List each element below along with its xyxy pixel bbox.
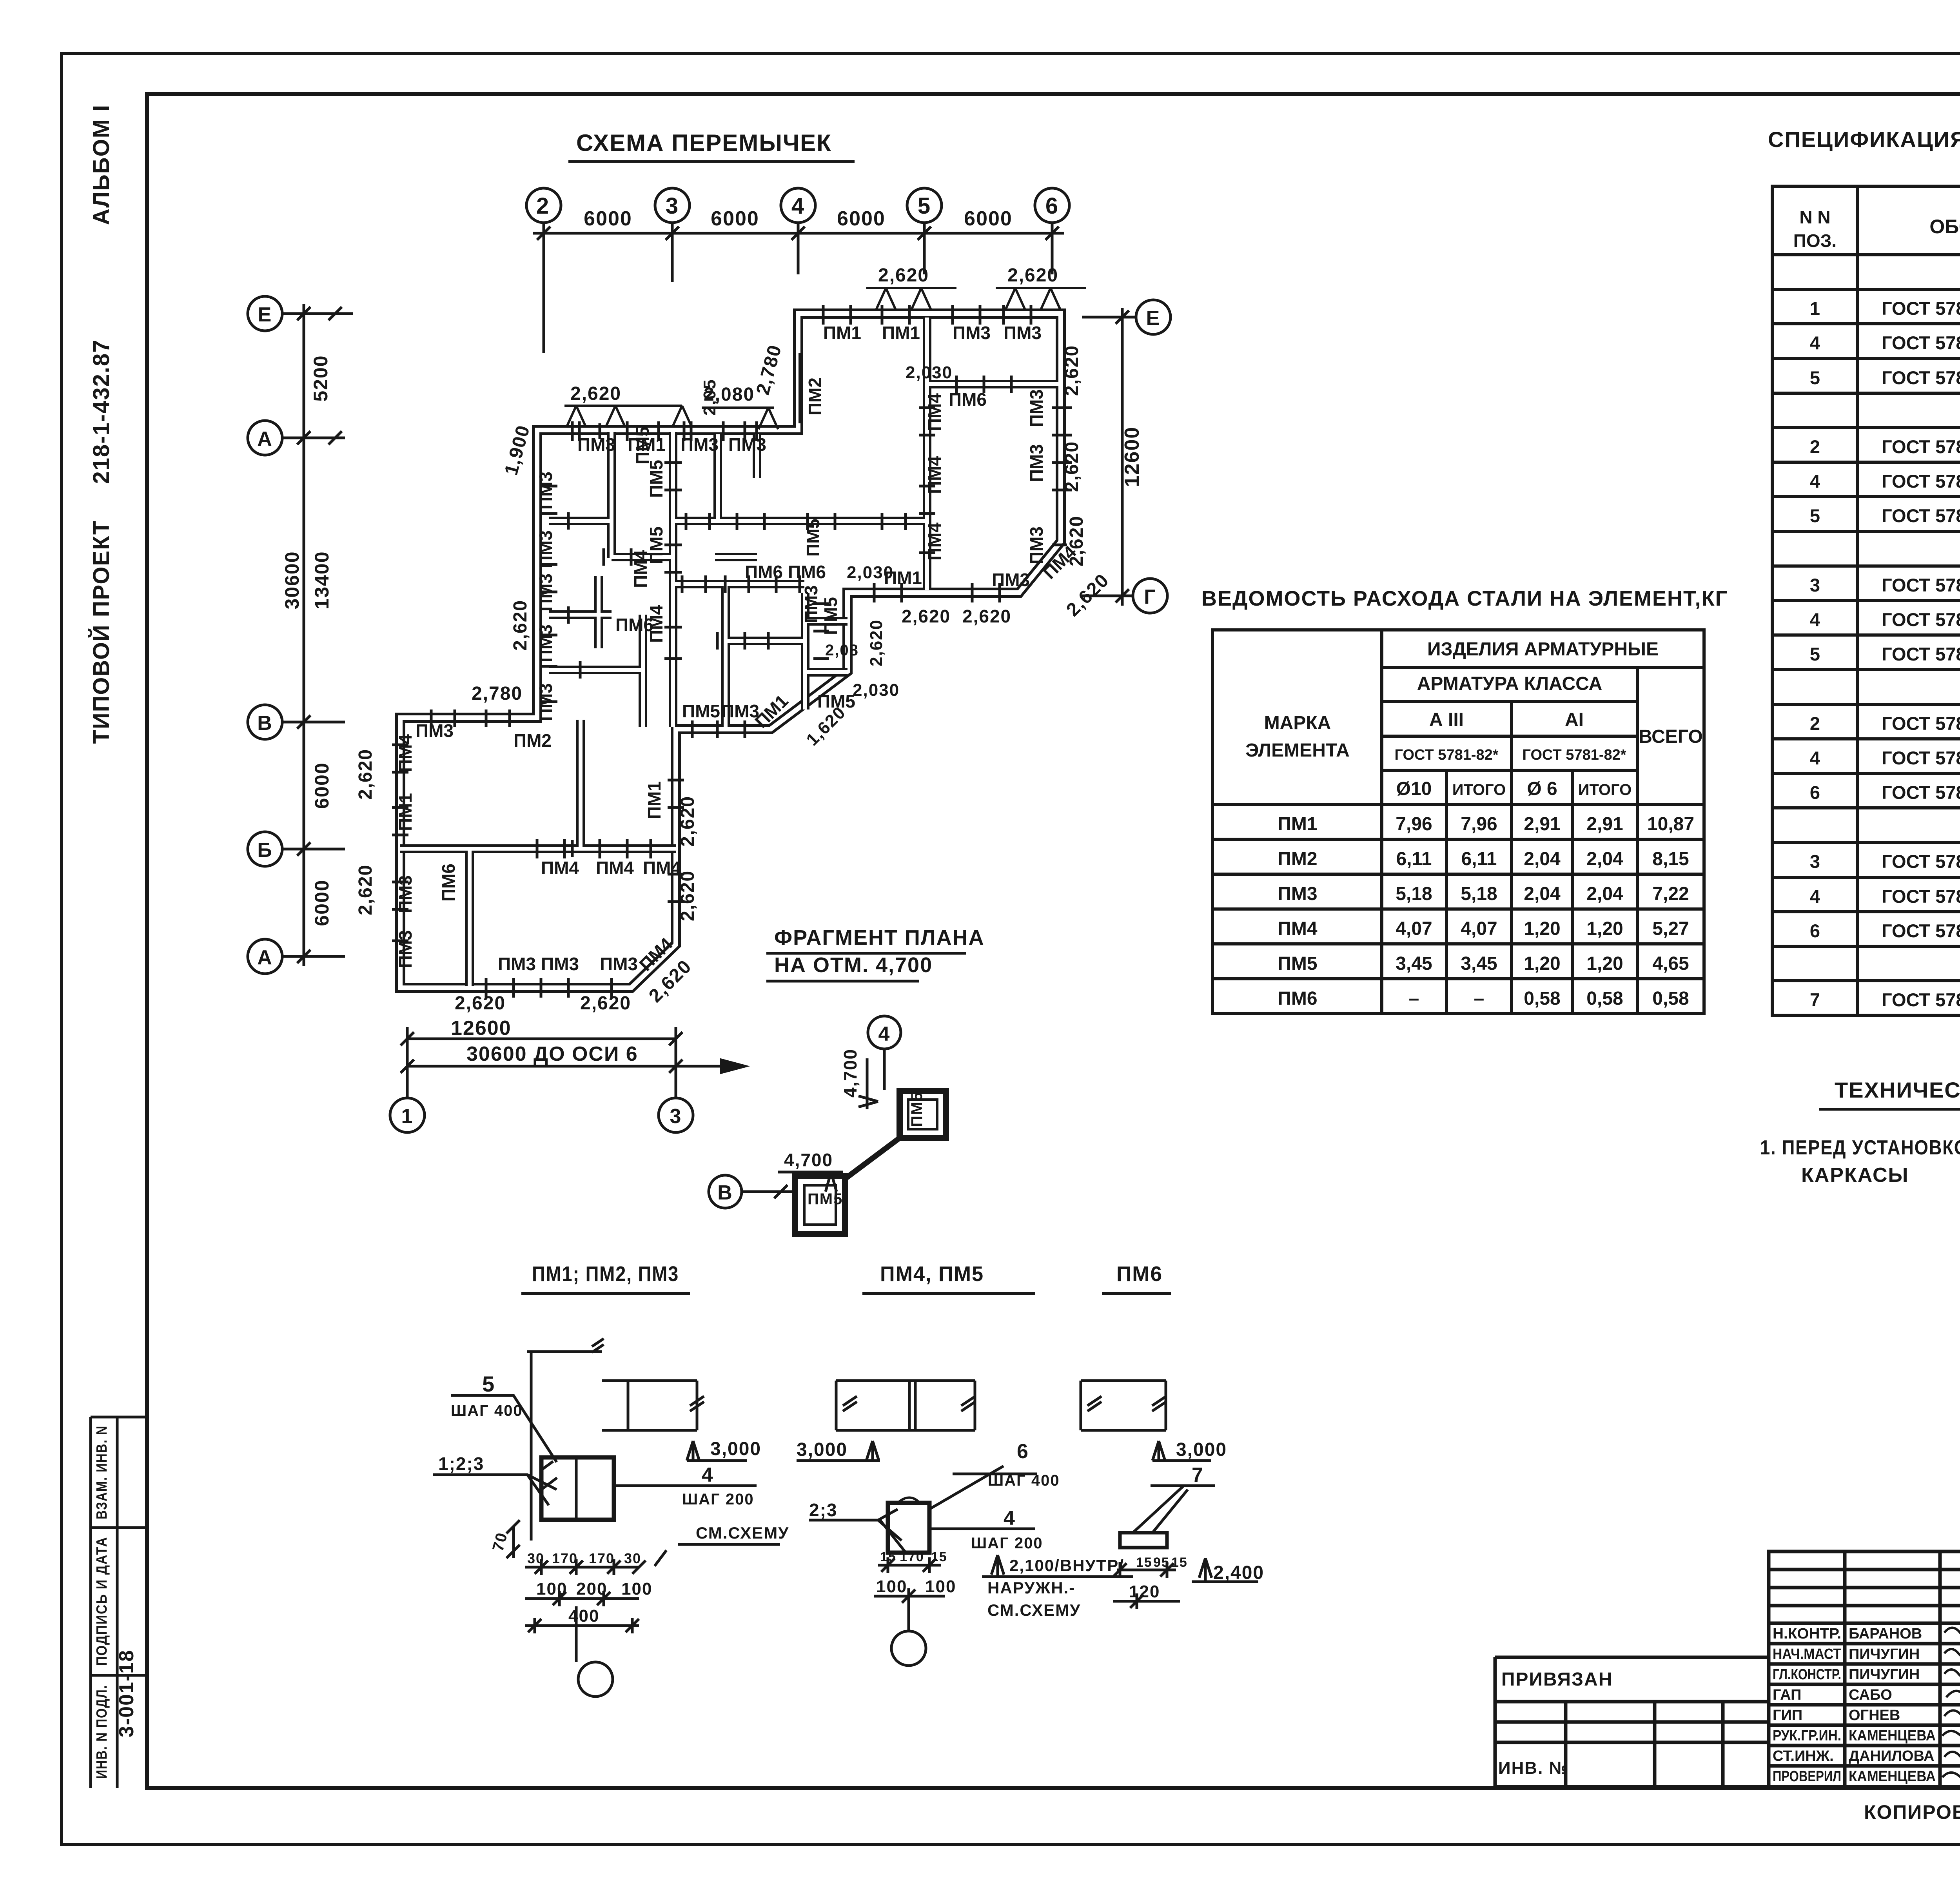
right axis circles Е Г xyxy=(1082,300,1171,613)
svg-text:А: А xyxy=(257,428,273,450)
svg-text:170: 170 xyxy=(900,1550,924,1564)
svg-text:4: 4 xyxy=(1004,1507,1016,1530)
svg-text:ШАГ 400: ШАГ 400 xyxy=(988,1472,1060,1489)
svg-text:А: А xyxy=(257,946,273,969)
svg-text:ПМ6: ПМ6 xyxy=(1116,1262,1163,1286)
svg-text:В: В xyxy=(257,712,273,735)
svg-text:3,000: 3,000 xyxy=(797,1439,848,1460)
svg-text:Б: Б xyxy=(257,839,272,862)
svg-text:ПМ3: ПМ3 xyxy=(535,624,556,662)
svg-text:ПМ2: ПМ2 xyxy=(514,730,552,751)
svg-text:2,400: 2,400 xyxy=(1213,1562,1264,1583)
svg-text:2,780: 2,780 xyxy=(472,683,523,704)
section detail ПМ1;ПМ2,ПМ3 xyxy=(433,1262,789,1697)
svg-text:ПМ1: ПМ1 xyxy=(395,793,416,831)
slab outline xyxy=(602,1381,704,1430)
svg-text:ПМ5: ПМ5 xyxy=(682,701,720,721)
svg-text:АЛЬБОМ I: АЛЬБОМ I xyxy=(89,104,114,225)
section rect xyxy=(541,1457,614,1520)
svg-text:2;3: 2;3 xyxy=(809,1500,837,1520)
svg-text:ГОСТ 5781-82*: ГОСТ 5781-82* xyxy=(1882,505,1960,526)
svg-text:ПМ4: ПМ4 xyxy=(630,550,651,588)
svg-text:ПМ5: ПМ5 xyxy=(808,1190,843,1208)
svg-text:170: 170 xyxy=(589,1550,615,1566)
svg-text:ПМ4: ПМ4 xyxy=(596,858,634,878)
svg-text:2,04: 2,04 xyxy=(1524,884,1561,904)
svg-text:2,04: 2,04 xyxy=(1586,884,1623,904)
svg-text:ПМ4: ПМ4 xyxy=(541,858,579,878)
svg-text:КАРКАСЫ: КАРКАСЫ xyxy=(1801,1164,1909,1187)
spec rows xyxy=(1810,263,1960,1010)
interior walls xyxy=(400,318,1058,986)
svg-text:ГОСТ 5781-82*: ГОСТ 5781-82* xyxy=(1882,782,1960,803)
svg-text:ПМ5: ПМ5 xyxy=(817,691,855,711)
svg-text:КАМЕНЦЕВА: КАМЕНЦЕВА xyxy=(1849,1768,1936,1785)
svg-text:ШАГ 400: ШАГ 400 xyxy=(451,1402,523,1419)
svg-text:ЭЛЕМЕНТА: ЭЛЕМЕНТА xyxy=(1245,740,1350,761)
dims xyxy=(1113,1562,1176,1578)
svg-text:1;2;3: 1;2;3 xyxy=(438,1453,484,1474)
arrow 3000 left xyxy=(797,1441,880,1461)
svg-text:ПМ3: ПМ3 xyxy=(1026,526,1047,564)
svg-text:ГОСТ 5781-82*: ГОСТ 5781-82* xyxy=(1882,920,1960,941)
svg-text:ГИП: ГИП xyxy=(1773,1707,1802,1724)
svg-text:ПМ3: ПМ3 xyxy=(992,570,1030,590)
leaders xyxy=(809,1509,906,1552)
dim 70 xyxy=(506,1520,520,1558)
svg-text:ВЕДОМОСТЬ РАСХОДА СТАЛИ НА: ВЕДОМОСТЬ РАСХОДА СТАЛИ НА ЭЛЕМЕНТ,КГ xyxy=(1201,587,1728,610)
svg-text:4,65: 4,65 xyxy=(1652,953,1689,974)
svg-text:15: 15 xyxy=(1171,1555,1188,1570)
svg-text:ОГНЕВ: ОГНЕВ xyxy=(1849,1707,1900,1724)
svg-text:3,45: 3,45 xyxy=(1461,953,1497,974)
svg-text:ВСЕГО: ВСЕГО xyxy=(1639,726,1702,747)
slab outline xyxy=(1081,1381,1166,1430)
svg-text:2,04: 2,04 xyxy=(1586,849,1623,869)
svg-text:ПМ5: ПМ5 xyxy=(820,597,841,635)
svg-text:4: 4 xyxy=(878,1023,891,1045)
svg-text:2,620: 2,620 xyxy=(455,993,506,1014)
svg-text:ПИЧУГИН: ПИЧУГИН xyxy=(1849,1646,1920,1662)
svg-text:6: 6 xyxy=(1045,193,1059,219)
dim 2400 xyxy=(1192,1558,1258,1582)
svg-text:2: 2 xyxy=(536,193,550,219)
svg-text:ГОСТ 5781-82*: ГОСТ 5781-82* xyxy=(1882,989,1960,1010)
svg-text:ШАГ 200: ШАГ 200 xyxy=(682,1491,754,1508)
svg-text:2,620: 2,620 xyxy=(580,993,631,1014)
svg-text:0,58: 0,58 xyxy=(1524,988,1560,1009)
svg-text:3: 3 xyxy=(666,193,679,219)
svg-text:120: 120 xyxy=(1129,1582,1160,1601)
svg-text:ГОСТ 5781-82*: ГОСТ 5781-82* xyxy=(1882,471,1960,492)
svg-text:6: 6 xyxy=(1810,782,1820,803)
svg-text:ШАГ 200: ШАГ 200 xyxy=(971,1535,1043,1552)
svg-text:5,18: 5,18 xyxy=(1461,884,1497,904)
spec header xyxy=(1793,207,1960,253)
svg-text:4: 4 xyxy=(1810,886,1820,907)
attachment table left xyxy=(1495,1657,1769,1787)
svg-text:ПРОВЕРИЛ: ПРОВЕРИЛ xyxy=(1773,1768,1841,1785)
wall line xyxy=(527,1339,604,1541)
building outer walls xyxy=(400,314,1061,988)
svg-text:КОПИРОВАЛ: КОПИРОВАЛ xyxy=(1864,1801,1960,1823)
svg-text:30600 ДО ОСИ 6: 30600 ДО ОСИ 6 xyxy=(466,1043,638,1065)
svg-text:400: 400 xyxy=(568,1606,599,1626)
svg-text:ПМ5: ПМ5 xyxy=(646,460,666,498)
svg-text:–: – xyxy=(1409,988,1419,1009)
svg-text:2,620: 2,620 xyxy=(1062,345,1082,396)
section detail ПМ6 xyxy=(1081,1262,1264,1609)
svg-text:ПМ3: ПМ3 xyxy=(395,930,416,968)
svg-text:4,07: 4,07 xyxy=(1396,918,1432,939)
svg-text:ГОСТ 5781-82*: ГОСТ 5781-82* xyxy=(1394,747,1498,763)
svg-text:ИТОГО: ИТОГО xyxy=(1578,781,1632,798)
svg-text:РУК.ГР.ИН.: РУК.ГР.ИН. xyxy=(1773,1727,1841,1744)
arrow 3000 xyxy=(687,1441,747,1461)
svg-text:ГОСТ 5781-82*: ГОСТ 5781-82* xyxy=(1882,436,1960,457)
svg-text:ПМ3: ПМ3 xyxy=(395,875,416,913)
svg-text:1,20: 1,20 xyxy=(1524,953,1560,974)
svg-text:7,96: 7,96 xyxy=(1396,814,1432,835)
svg-text:2,030: 2,030 xyxy=(853,680,900,700)
svg-text:ПМ3: ПМ3 xyxy=(535,683,556,721)
svg-text:ИНВ. №: ИНВ. № xyxy=(1498,1758,1569,1778)
svg-text:3,45: 3,45 xyxy=(1396,953,1432,974)
svg-text:12600: 12600 xyxy=(451,1017,512,1040)
plan: Схема перемычек xyxy=(248,130,1171,1234)
arrow 3000 right xyxy=(1152,1441,1211,1461)
leader 1;2;3 xyxy=(433,1475,557,1505)
svg-text:ПМ3: ПМ3 xyxy=(535,472,556,510)
svg-text:СМ.СХЕМУ: СМ.СХЕМУ xyxy=(987,1601,1081,1619)
svg-text:100: 100 xyxy=(536,1579,567,1599)
dim line 30-170-170-30 xyxy=(525,1559,646,1575)
svg-text:МАРКА: МАРКА xyxy=(1264,713,1331,733)
left sidebar stamp column xyxy=(91,1417,147,1788)
svg-text:ПМ6: ПМ6 xyxy=(1278,988,1317,1009)
svg-text:ГОСТ 5781-82*: ГОСТ 5781-82* xyxy=(1882,609,1960,630)
svg-text:7,96: 7,96 xyxy=(1461,814,1497,835)
svg-text:4,700: 4,700 xyxy=(840,1049,860,1098)
svg-text:5: 5 xyxy=(1810,644,1820,664)
svg-text:ПМ1: ПМ1 xyxy=(644,781,664,819)
svg-text:ГАП: ГАП xyxy=(1773,1687,1801,1703)
svg-text:2,91: 2,91 xyxy=(1586,814,1623,835)
svg-text:ПМ3: ПМ3 xyxy=(535,573,556,611)
svg-text:15: 15 xyxy=(931,1550,947,1564)
svg-text:ПРИВЯЗАН: ПРИВЯЗАН xyxy=(1501,1669,1613,1690)
svg-text:5: 5 xyxy=(482,1372,495,1396)
svg-text:ПМ4: ПМ4 xyxy=(395,734,416,772)
svg-text:6000: 6000 xyxy=(584,207,632,230)
svg-text:В: В xyxy=(717,1181,733,1204)
svg-text:ПМ3: ПМ3 xyxy=(416,720,454,741)
svg-text:2,620: 2,620 xyxy=(1007,265,1058,286)
signature table frame xyxy=(1769,1551,1960,1787)
svg-text:ГЛ.КОНСТР.: ГЛ.КОНСТР. xyxy=(1773,1666,1841,1683)
svg-text:2,620: 2,620 xyxy=(355,749,376,800)
svg-text:ДАНИЛОВА: ДАНИЛОВА xyxy=(1849,1748,1934,1764)
svg-text:95: 95 xyxy=(1153,1555,1170,1570)
svg-text:ПМ3: ПМ3 xyxy=(1278,884,1317,904)
steel consumption table Ведомость расхода стали xyxy=(1201,587,1728,1013)
svg-text:ПМ1: ПМ1 xyxy=(823,323,861,343)
svg-text:ПМ1; ПМ2, ПМ3: ПМ1; ПМ2, ПМ3 xyxy=(532,1262,679,1286)
opening tick marks on walls xyxy=(392,305,1072,998)
svg-text:ФРАГМЕНТ ПЛАНА: ФРАГМЕНТ ПЛАНА xyxy=(774,926,985,949)
svg-text:ПМ5: ПМ5 xyxy=(1278,953,1317,974)
svg-text:ПМ1: ПМ1 xyxy=(884,568,922,588)
svg-text:ПМ2: ПМ2 xyxy=(1278,849,1317,869)
steel table header texts xyxy=(1245,639,1703,799)
svg-text:5,18: 5,18 xyxy=(1396,884,1432,904)
svg-text:ПМ3: ПМ3 xyxy=(681,434,719,455)
svg-text:13400: 13400 xyxy=(311,551,333,609)
svg-text:ПМ3: ПМ3 xyxy=(1026,444,1047,482)
svg-text:ПИЧУГИН: ПИЧУГИН xyxy=(1849,1666,1920,1683)
svg-text:ПМ3: ПМ3 xyxy=(498,954,536,974)
svg-text:Е: Е xyxy=(258,303,272,326)
svg-text:2,08: 2,08 xyxy=(825,642,859,659)
ПМ labels on plan xyxy=(395,323,1080,975)
svg-text:2,620: 2,620 xyxy=(510,600,531,651)
svg-text:ПМ4: ПМ4 xyxy=(924,456,945,494)
svg-text:ПМ3: ПМ3 xyxy=(577,434,615,455)
svg-text:Ø10: Ø10 xyxy=(1396,778,1432,799)
svg-text:100: 100 xyxy=(621,1579,652,1599)
svg-text:–: – xyxy=(1474,988,1485,1009)
svg-text:ТИПОВОЙ ПРОЕКТ: ТИПОВОЙ ПРОЕКТ xyxy=(89,520,114,744)
svg-text:15: 15 xyxy=(880,1550,897,1564)
svg-text:2,91: 2,91 xyxy=(1524,814,1560,835)
plan dimension arrows top of middle block xyxy=(564,288,1086,429)
svg-text:2,620: 2,620 xyxy=(570,383,621,404)
svg-text:А III: А III xyxy=(1429,709,1464,730)
svg-text:ПМ3: ПМ3 xyxy=(535,530,556,568)
svg-text:4,700: 4,700 xyxy=(784,1150,833,1170)
svg-text:ПМ3: ПМ3 xyxy=(541,954,579,974)
svg-text:ПМ4: ПМ4 xyxy=(643,858,681,878)
svg-text:ПМ1: ПМ1 xyxy=(1278,814,1317,835)
svg-text:НАРУЖН.-: НАРУЖН.- xyxy=(987,1579,1075,1597)
svg-text:ПМ4, ПМ5: ПМ4, ПМ5 xyxy=(880,1262,984,1286)
svg-text:2,620: 2,620 xyxy=(902,606,951,626)
svg-text:3: 3 xyxy=(1810,851,1820,872)
svg-text:7,22: 7,22 xyxy=(1652,884,1689,904)
svg-text:8,15: 8,15 xyxy=(1652,849,1689,869)
title block xyxy=(1495,1551,1960,1860)
svg-text:ПМ4: ПМ4 xyxy=(1278,918,1317,939)
svg-text:ПМ5: ПМ5 xyxy=(803,519,823,557)
svg-text:ПМ3: ПМ3 xyxy=(1004,323,1042,343)
svg-text:ГОСТ 5781-82*: ГОСТ 5781-82* xyxy=(1882,367,1960,388)
signature table texts xyxy=(1773,1626,1936,1785)
svg-text:2,620: 2,620 xyxy=(878,265,929,286)
svg-text:НАЧ.МАСТ: НАЧ.МАСТ xyxy=(1773,1646,1841,1662)
svg-text:1: 1 xyxy=(1810,298,1820,319)
svg-text:30600: 30600 xyxy=(281,551,303,609)
svg-text:ГОСТ 5781-82*: ГОСТ 5781-82* xyxy=(1882,851,1960,872)
svg-text:4: 4 xyxy=(1810,748,1820,768)
svg-text:ГОСТ 5781-82*: ГОСТ 5781-82* xyxy=(1882,332,1960,353)
leader 7 xyxy=(1133,1486,1215,1533)
svg-text:2,030: 2,030 xyxy=(906,363,953,382)
grid axis circles top: 2 3 4 5 6 xyxy=(526,188,1069,353)
svg-text:3-001-18: 3-001-18 xyxy=(115,1649,138,1737)
svg-text:ОБОЗНАЧЕНИЕ: ОБОЗНАЧЕНИЕ xyxy=(1929,216,1960,238)
svg-text:5: 5 xyxy=(918,193,931,219)
svg-text:СТ.ИНЖ.: СТ.ИНЖ. xyxy=(1773,1748,1834,1764)
svg-text:ПОЗ.: ПОЗ. xyxy=(1793,230,1837,251)
svg-text:ПМ3: ПМ3 xyxy=(953,323,991,343)
svg-text:БАРАНОВ: БАРАНОВ xyxy=(1849,1626,1922,1642)
svg-text:4: 4 xyxy=(791,193,805,219)
svg-text:Н.КОНТР.: Н.КОНТР. xyxy=(1773,1626,1841,1642)
svg-text:ТЕХНИЧЕСКИЕ ТРЕБОВАНИЯ: ТЕХНИЧЕСКИЕ ТРЕБОВАНИЯ xyxy=(1835,1078,1960,1102)
svg-text:6,11: 6,11 xyxy=(1461,849,1497,869)
svg-text:170: 170 xyxy=(552,1550,578,1566)
svg-text:30: 30 xyxy=(527,1550,544,1566)
svg-text:2,620: 2,620 xyxy=(677,796,698,847)
svg-text:15: 15 xyxy=(1136,1555,1152,1570)
svg-text:ПМ5: ПМ5 xyxy=(632,426,653,465)
left axis circles Е А В Б А xyxy=(248,296,353,974)
signatures squiggles xyxy=(1942,1628,1960,1780)
svg-text:ИЗДЕЛИЯ АРМАТУРНЫЕ: ИЗДЕЛИЯ АРМАТУРНЫЕ xyxy=(1427,639,1659,660)
svg-text:САБО: САБО xyxy=(1849,1687,1892,1703)
svg-text:ПМ3: ПМ3 xyxy=(600,954,638,974)
svg-text:ГОСТ 5781-82*: ГОСТ 5781-82* xyxy=(1882,298,1960,319)
svg-text:2,620: 2,620 xyxy=(355,864,376,915)
svg-text:НА ОТМ. 4,700: НА ОТМ. 4,700 xyxy=(774,953,933,977)
svg-text:1,20: 1,20 xyxy=(1586,918,1623,939)
svg-text:ПМ6: ПМ6 xyxy=(615,615,653,635)
svg-text:ПМ5: ПМ5 xyxy=(908,1092,926,1127)
svg-text:6: 6 xyxy=(1017,1440,1029,1463)
svg-text:ГОСТ 5781-82*: ГОСТ 5781-82* xyxy=(1882,713,1960,734)
svg-text:3,000: 3,000 xyxy=(1176,1439,1227,1460)
bottom dimension lines 12600 / 30600 до оси 6 xyxy=(390,1027,745,1132)
svg-text:ГОСТ 5781-82*: ГОСТ 5781-82* xyxy=(1882,886,1960,907)
svg-text:1: 1 xyxy=(401,1105,414,1128)
svg-text:ВЗАМ. ИНВ. N: ВЗАМ. ИНВ. N xyxy=(94,1425,110,1519)
svg-text:6000: 6000 xyxy=(311,762,333,809)
svg-text:12600: 12600 xyxy=(1121,426,1143,487)
svg-text:АРМАТУРА КЛАССА: АРМАТУРА КЛАССА xyxy=(1417,673,1602,694)
svg-text:0,58: 0,58 xyxy=(1586,988,1623,1009)
svg-text:ГОСТ 5781-82*: ГОСТ 5781-82* xyxy=(1882,748,1960,768)
svg-text:Г: Г xyxy=(1144,586,1156,608)
svg-text:3,000: 3,000 xyxy=(710,1439,761,1459)
svg-text:ПМ6: ПМ6 xyxy=(745,562,783,582)
svg-text:6000: 6000 xyxy=(837,207,886,230)
svg-text:3: 3 xyxy=(1810,575,1820,595)
position circle xyxy=(578,1662,613,1697)
dims xyxy=(878,1557,941,1573)
svg-text:2,04: 2,04 xyxy=(1524,849,1561,869)
dim 2100 xyxy=(982,1555,1133,1577)
specification table xyxy=(1768,127,1960,1015)
svg-text:2,620: 2,620 xyxy=(962,606,1011,626)
svg-text:ПОДПИСЬ И ДАТА: ПОДПИСЬ И ДАТА xyxy=(94,1537,110,1666)
svg-text:0,58: 0,58 xyxy=(1652,988,1689,1009)
section rect xyxy=(888,1503,929,1553)
svg-text:ИТОГО: ИТОГО xyxy=(1452,781,1506,798)
svg-text:5: 5 xyxy=(1810,505,1820,526)
section detail ПМ4,ПМ5 xyxy=(797,1262,1133,1666)
svg-text:4: 4 xyxy=(1810,609,1820,630)
svg-text:1,20: 1,20 xyxy=(1524,918,1560,939)
svg-text:1,20: 1,20 xyxy=(1586,953,1623,974)
svg-text:ИНВ. N ПОДЛ.: ИНВ. N ПОДЛ. xyxy=(94,1685,110,1779)
svg-text:10,87: 10,87 xyxy=(1647,814,1694,835)
section thin rect xyxy=(1120,1533,1167,1548)
svg-text:4: 4 xyxy=(1810,471,1820,492)
svg-text:ГОСТ 5781-82*: ГОСТ 5781-82* xyxy=(1882,575,1960,595)
svg-text:ПМ3: ПМ3 xyxy=(801,585,821,623)
svg-text:ПМ6: ПМ6 xyxy=(949,389,987,410)
steel table grid xyxy=(1212,630,1704,1013)
svg-text:ПМ4: ПМ4 xyxy=(924,393,945,431)
svg-text:7: 7 xyxy=(1810,989,1820,1010)
steel table data rows xyxy=(1278,814,1694,1009)
svg-text:5: 5 xyxy=(1810,367,1820,388)
svg-text:30: 30 xyxy=(624,1550,641,1566)
fragment detail: circle 4 + ПМ5 boxes xyxy=(709,1016,946,1234)
svg-text:6000: 6000 xyxy=(711,207,759,230)
svg-text:6,11: 6,11 xyxy=(1396,849,1432,869)
svg-text:2,100/ВНУТР/: 2,100/ВНУТР/ xyxy=(1009,1556,1124,1575)
svg-text:ПМ2: ПМ2 xyxy=(805,377,825,416)
svg-text:ПМ4: ПМ4 xyxy=(924,523,945,561)
svg-text:6000: 6000 xyxy=(964,207,1013,230)
svg-text:2,620: 2,620 xyxy=(867,619,886,666)
svg-text:3: 3 xyxy=(670,1105,682,1128)
svg-text:N N: N N xyxy=(1799,207,1830,227)
spec table grid xyxy=(1772,186,1960,1015)
svg-text:ПМ3: ПМ3 xyxy=(1026,389,1047,427)
svg-text:7: 7 xyxy=(1192,1464,1204,1486)
svg-text:2: 2 xyxy=(1810,713,1820,734)
svg-text:218-1-432.87: 218-1-432.87 xyxy=(89,339,114,484)
svg-text:100: 100 xyxy=(925,1577,956,1596)
svg-text:ГОСТ 5781-82*: ГОСТ 5781-82* xyxy=(1882,644,1960,664)
svg-text:5200: 5200 xyxy=(310,355,332,401)
svg-text:ПМ6: ПМ6 xyxy=(438,864,459,902)
svg-text:ПМ1: ПМ1 xyxy=(882,323,920,343)
svg-text:ГОСТ 5781-82*: ГОСТ 5781-82* xyxy=(1522,747,1626,763)
svg-text:2,05: 2,05 xyxy=(700,379,719,416)
svg-text:КАМЕНЦЕВА: КАМЕНЦЕВА xyxy=(1849,1727,1936,1744)
svg-text:СПЕЦИФИКАЦИЯ ПЕРЕМЫЧЕК ПМ: СПЕЦИФИКАЦИЯ ПЕРЕМЫЧЕК ПМ1÷ПМ6 xyxy=(1768,127,1960,152)
svg-text:ПМ6: ПМ6 xyxy=(788,562,826,582)
leader 5 шаг400 xyxy=(451,1395,557,1462)
svg-text:Ø 6: Ø 6 xyxy=(1527,778,1557,799)
svg-text:СХЕМА ПЕРЕМЫЧЕК: СХЕМА ПЕРЕМЫЧЕК xyxy=(576,130,832,156)
leader 4 шаг 200 xyxy=(614,1486,780,1566)
position circle xyxy=(891,1631,926,1666)
svg-text:5,27: 5,27 xyxy=(1652,918,1689,939)
svg-text:2,620: 2,620 xyxy=(1062,441,1082,492)
svg-text:1. ПЕРЕД УСТАНОВКОЙ ОТДЕЛЬНЫЕ: 1. ПЕРЕД УСТАНОВКОЙ ОТДЕЛЬНЫЕ СТЕРЖНИ СВ… xyxy=(1760,1136,1960,1159)
svg-text:6: 6 xyxy=(1810,920,1820,941)
svg-text:СМ.СХЕМУ: СМ.СХЕМУ xyxy=(696,1524,789,1542)
slab outline xyxy=(836,1381,975,1430)
svg-text:ПМ3: ПМ3 xyxy=(728,434,766,455)
svg-text:2: 2 xyxy=(1810,436,1820,457)
svg-text:АI: АI xyxy=(1565,709,1584,730)
svg-text:4: 4 xyxy=(702,1464,714,1486)
